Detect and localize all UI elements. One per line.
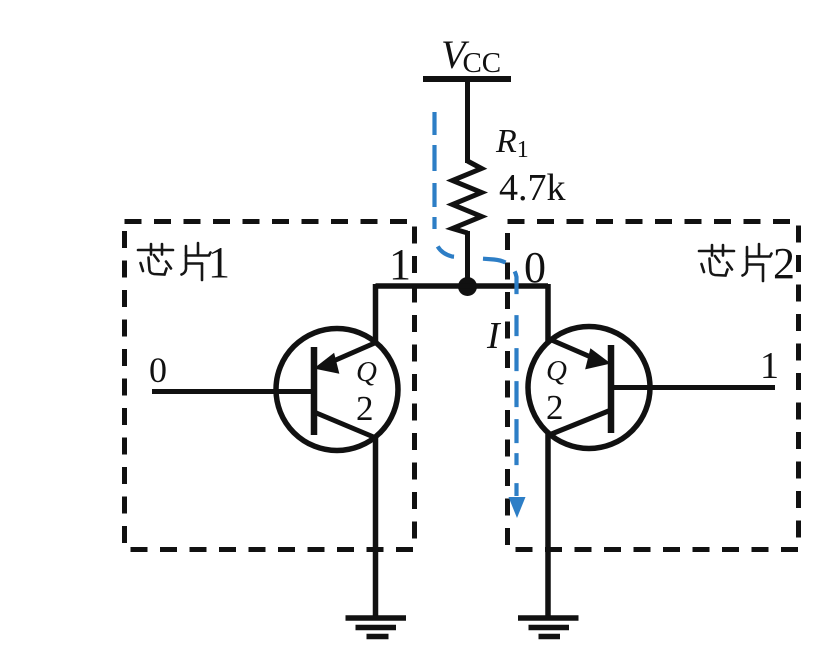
svg-text:0: 0 (524, 243, 546, 292)
chip 1 dashed box (125, 222, 415, 550)
svg-text:1: 1 (208, 238, 230, 287)
wire: resistor R1 bottom to node (465, 231, 470, 292)
transistor body circle (528, 327, 650, 449)
emitter arm (314, 412, 376, 438)
transistor Q2 (chip 2) (528, 327, 650, 449)
chip 2 dashed box (508, 222, 799, 550)
svg-text:4.7k: 4.7k (499, 167, 566, 209)
collector arrowhead (points into base) (587, 350, 609, 368)
emitter arm (549, 410, 611, 435)
svg-text:I: I (486, 315, 502, 357)
label Q2 (chip 2) (546, 355, 567, 427)
power rail VCC bar (423, 76, 511, 82)
svg-text:Q: Q (356, 356, 377, 388)
current arrowhead (509, 497, 526, 518)
label 芯片2 (chip 2) (699, 239, 795, 288)
label 芯片1 (chip 1) (138, 238, 230, 287)
base bar (608, 345, 615, 433)
ground (chip 1) (346, 618, 407, 637)
wire: VCC bar to resistor R1 top (465, 79, 470, 163)
label Q2 (chip 1) (356, 356, 377, 428)
transistor body circle (276, 329, 398, 451)
wire: chip2 collector vertical (545, 284, 551, 343)
svg-text:2: 2 (356, 389, 374, 428)
svg-text:Q: Q (546, 355, 567, 387)
svg-text:1: 1 (760, 345, 779, 387)
collector arrowhead (points into base) (316, 355, 338, 373)
svg-text:2: 2 (773, 239, 795, 288)
svg-text:1: 1 (389, 240, 411, 289)
wire: chip1 base input (152, 389, 314, 394)
wire: horizontal bus joining both collectors (376, 283, 549, 289)
svg-text:2: 2 (546, 388, 564, 427)
svg-text:0: 0 (149, 350, 167, 390)
wire: chip2 emitter to ground (545, 433, 551, 618)
current path I (blue dashed) (435, 112, 517, 496)
collector arm (322, 342, 377, 366)
resistor R1 (453, 161, 482, 233)
wire: chip2 base output (611, 385, 775, 390)
wire: chip1 emitter to ground (373, 436, 379, 618)
base bar (311, 347, 318, 435)
wire: chip1 collector vertical (373, 284, 379, 343)
collector arm (548, 339, 600, 362)
node: wired-AND junction dot (458, 277, 477, 296)
ground (chip 2) (518, 618, 579, 637)
transistor Q2 (chip 1) (276, 329, 398, 451)
